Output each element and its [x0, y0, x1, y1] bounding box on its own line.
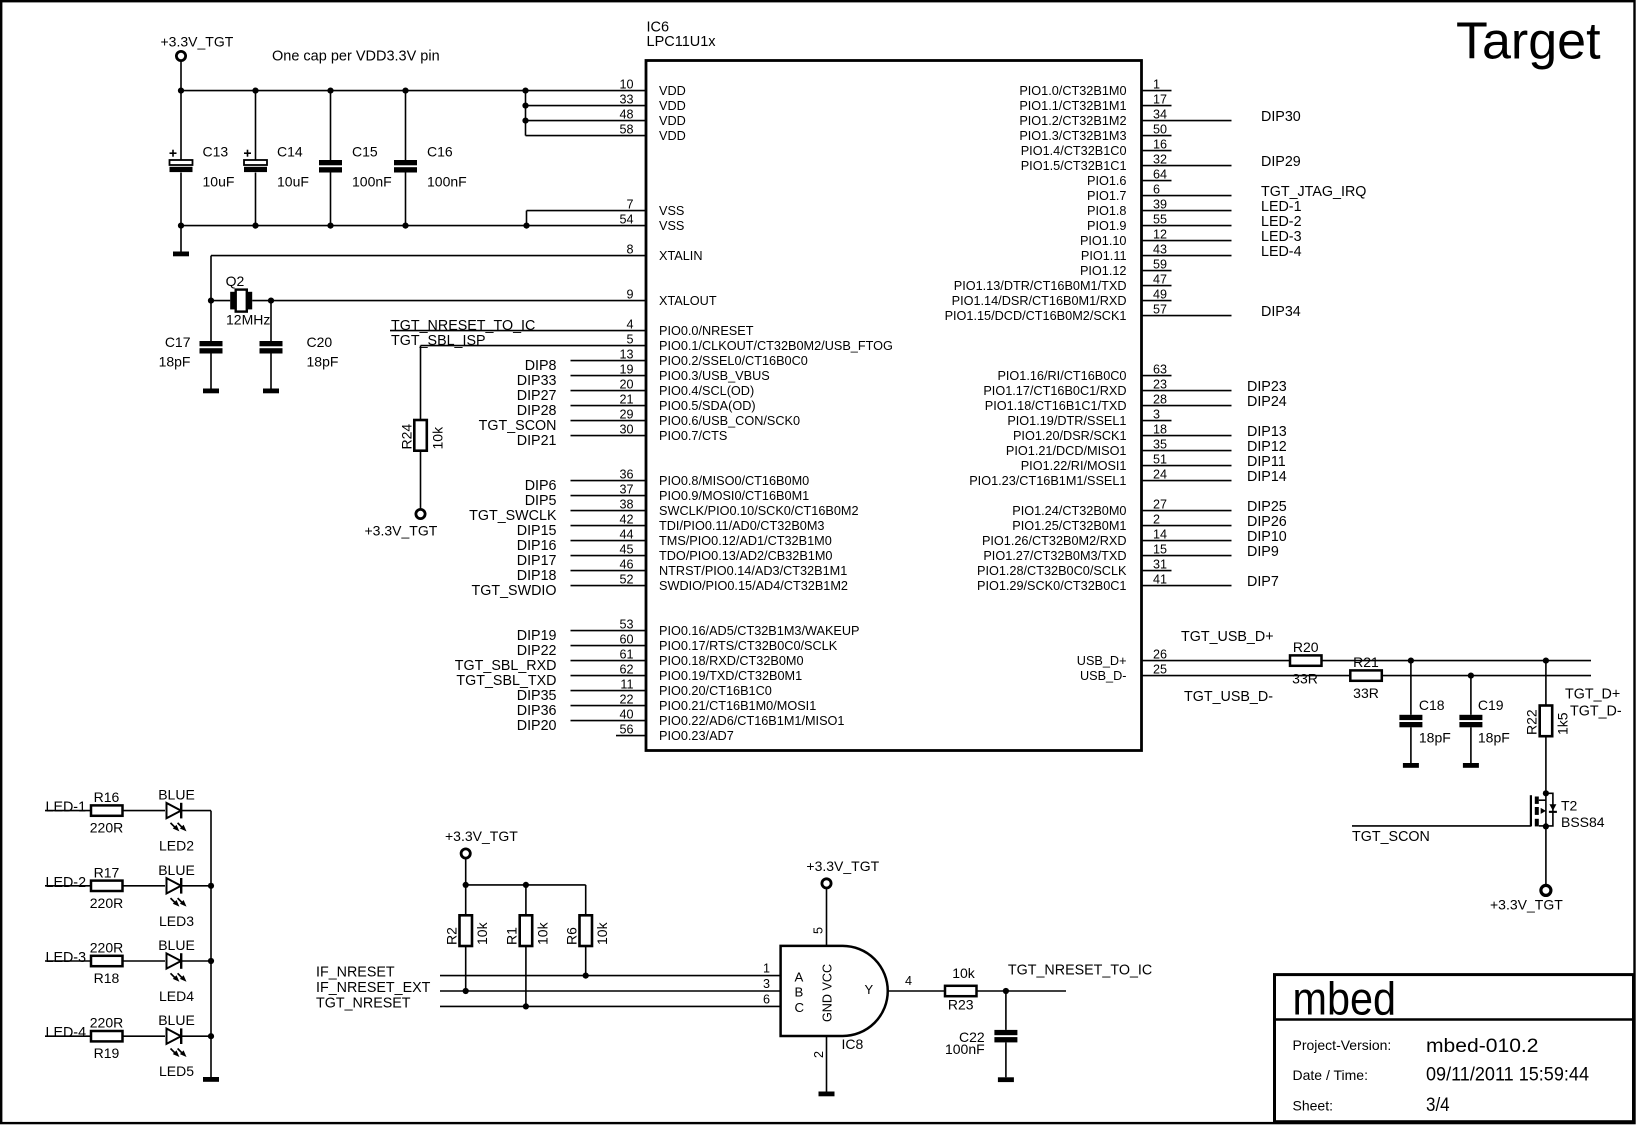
- svg-text:PIO1.25/CT32B0M1: PIO1.25/CT32B0M1: [1012, 519, 1126, 533]
- svg-text:R21: R21: [1353, 654, 1379, 670]
- svg-text:18pF: 18pF: [1419, 730, 1451, 746]
- svg-text:6: 6: [1153, 183, 1160, 197]
- svg-text:PIO1.1/CT32B1M1: PIO1.1/CT32B1M1: [1019, 99, 1126, 113]
- svg-text:55: 55: [1153, 213, 1167, 227]
- svg-text:PIO1.0/CT32B1M0: PIO1.0/CT32B1M0: [1019, 84, 1126, 98]
- svg-text:PIO1.26/CT32B0M2/RXD: PIO1.26/CT32B0M2/RXD: [982, 534, 1127, 548]
- svg-text:DIP22: DIP22: [517, 643, 557, 659]
- svg-text:mbed: mbed: [1293, 972, 1397, 1024]
- svg-text:BLUE: BLUE: [158, 937, 195, 953]
- svg-text:23: 23: [1153, 378, 1167, 392]
- svg-text:+3.3V_TGT: +3.3V_TGT: [806, 858, 879, 874]
- svg-text:PIO0.21/CT16B1M0/MOSI1: PIO0.21/CT16B1M0/MOSI1: [659, 699, 816, 713]
- svg-text:R20: R20: [1293, 639, 1319, 655]
- svg-text:30: 30: [619, 423, 633, 437]
- svg-text:B: B: [795, 985, 804, 1000]
- svg-text:BLUE: BLUE: [158, 862, 195, 878]
- svg-text:50: 50: [1153, 123, 1167, 137]
- svg-text:PIO0.17/RTS/CT32B0C0/SCLK: PIO0.17/RTS/CT32B0C0/SCLK: [659, 639, 838, 653]
- svg-text:IF_NRESET_EXT: IF_NRESET_EXT: [316, 980, 431, 996]
- svg-text:VDD: VDD: [659, 114, 686, 128]
- svg-text:13: 13: [619, 348, 633, 362]
- svg-text:DIP15: DIP15: [517, 523, 557, 539]
- svg-text:1k5: 1k5: [1555, 712, 1571, 735]
- svg-text:PIO1.3/CT32B1M3: PIO1.3/CT32B1M3: [1019, 129, 1126, 143]
- svg-text:PIO1.29/SCK0/CT32B0C1: PIO1.29/SCK0/CT32B0C1: [977, 579, 1127, 593]
- svg-text:62: 62: [619, 663, 633, 677]
- svg-text:4: 4: [626, 318, 633, 332]
- svg-text:51: 51: [1153, 453, 1167, 467]
- svg-text:43: 43: [1153, 243, 1167, 257]
- svg-text:PIO0.6/USB_CON/SCK0: PIO0.6/USB_CON/SCK0: [659, 414, 800, 428]
- svg-text:DIP21: DIP21: [517, 433, 557, 449]
- svg-text:LED-4: LED-4: [46, 1025, 87, 1041]
- svg-text:LED4: LED4: [159, 988, 194, 1004]
- svg-text:TGT_D+: TGT_D+: [1565, 687, 1620, 703]
- svg-text:PIO1.18/CT16B1C1/TXD: PIO1.18/CT16B1C1/TXD: [985, 399, 1127, 413]
- svg-text:DIP25: DIP25: [1247, 499, 1287, 515]
- svg-text:LED-3: LED-3: [46, 950, 87, 966]
- svg-text:DIP36: DIP36: [517, 703, 557, 719]
- svg-text:14: 14: [1153, 528, 1167, 542]
- svg-text:24: 24: [1153, 468, 1167, 482]
- svg-text:7: 7: [626, 198, 633, 212]
- svg-text:LED5: LED5: [159, 1063, 194, 1079]
- svg-text:DIP16: DIP16: [517, 538, 557, 554]
- svg-text:LED-4: LED-4: [1261, 244, 1302, 260]
- svg-text:PIO1.22/RI/MOSI1: PIO1.22/RI/MOSI1: [1021, 459, 1127, 473]
- svg-text:59: 59: [1153, 258, 1167, 272]
- svg-text:17: 17: [1153, 93, 1167, 107]
- svg-text:LED-2: LED-2: [1261, 214, 1302, 230]
- svg-text:47: 47: [1153, 273, 1167, 287]
- svg-text:220R: 220R: [90, 895, 123, 911]
- svg-text:PIO0.23/AD7: PIO0.23/AD7: [659, 729, 734, 743]
- svg-text:PIO1.2/CT32B1M2: PIO1.2/CT32B1M2: [1019, 114, 1126, 128]
- svg-text:10uF: 10uF: [203, 174, 235, 190]
- svg-text:2: 2: [1153, 513, 1160, 527]
- svg-text:12MHz: 12MHz: [226, 312, 270, 328]
- svg-text:36: 36: [619, 468, 633, 482]
- svg-text:18pF: 18pF: [159, 354, 191, 370]
- svg-text:TGT_USB_D-: TGT_USB_D-: [1184, 689, 1273, 705]
- svg-text:DIP10: DIP10: [1247, 529, 1287, 545]
- svg-text:NTRST/PIO0.14/AD3/CT32B1M1: NTRST/PIO0.14/AD3/CT32B1M1: [659, 564, 847, 578]
- svg-text:20: 20: [619, 378, 633, 392]
- svg-text:DIP33: DIP33: [517, 373, 557, 389]
- svg-text:TGT_SWCLK: TGT_SWCLK: [469, 508, 557, 524]
- svg-text:25: 25: [1153, 663, 1167, 677]
- svg-text:PIO1.12: PIO1.12: [1080, 264, 1127, 278]
- svg-text:LED-1: LED-1: [1261, 199, 1302, 215]
- svg-text:33R: 33R: [1353, 685, 1379, 701]
- svg-text:DIP20: DIP20: [517, 718, 557, 734]
- svg-text:VDD: VDD: [659, 84, 686, 98]
- svg-text:PIO1.10: PIO1.10: [1080, 234, 1127, 248]
- svg-text:10k: 10k: [430, 426, 446, 450]
- svg-text:PIO1.28/CT32B0C0/SCLK: PIO1.28/CT32B0C0/SCLK: [977, 564, 1127, 578]
- svg-text:PIO1.13/DTR/CT16B0M1/TXD: PIO1.13/DTR/CT16B0M1/TXD: [954, 279, 1127, 293]
- svg-text:38: 38: [619, 498, 633, 512]
- svg-text:PIO1.14/DSR/CT16B0M1/RXD: PIO1.14/DSR/CT16B0M1/RXD: [952, 294, 1127, 308]
- svg-text:PIO0.3/USB_VBUS: PIO0.3/USB_VBUS: [659, 369, 770, 383]
- svg-text:BSS84: BSS84: [1561, 814, 1605, 830]
- svg-text:PIO1.8: PIO1.8: [1087, 204, 1127, 218]
- svg-text:18pF: 18pF: [1478, 730, 1510, 746]
- svg-text:100nF: 100nF: [945, 1041, 985, 1057]
- svg-text:PIO1.19/DTR/SSEL1: PIO1.19/DTR/SSEL1: [1007, 414, 1126, 428]
- svg-text:TGT_SBL_TXD: TGT_SBL_TXD: [456, 673, 556, 689]
- svg-text:220R: 220R: [90, 1015, 123, 1031]
- svg-text:C: C: [795, 1000, 805, 1015]
- svg-text:TDO/PIO0.13/AD2/CB32B1M0: TDO/PIO0.13/AD2/CB32B1M0: [659, 549, 832, 563]
- svg-text:41: 41: [1153, 573, 1167, 587]
- svg-text:TGT_NRESET_TO_IC: TGT_NRESET_TO_IC: [391, 318, 535, 334]
- svg-text:LED-2: LED-2: [46, 875, 87, 891]
- svg-text:DIP5: DIP5: [525, 493, 557, 509]
- svg-text:VSS: VSS: [659, 204, 684, 218]
- svg-text:mbed-010.2: mbed-010.2: [1426, 1036, 1539, 1057]
- svg-text:LED-1: LED-1: [46, 800, 87, 816]
- svg-text:PIO1.20/DSR/SCK1: PIO1.20/DSR/SCK1: [1013, 429, 1127, 443]
- svg-text:PIO1.6: PIO1.6: [1087, 174, 1127, 188]
- svg-text:63: 63: [1153, 363, 1167, 377]
- svg-text:18pF: 18pF: [307, 354, 339, 370]
- svg-text:DIP30: DIP30: [1261, 109, 1301, 125]
- svg-text:PIO0.0/NRESET: PIO0.0/NRESET: [659, 324, 754, 338]
- svg-text:R17: R17: [94, 864, 120, 880]
- svg-text:56: 56: [619, 723, 633, 737]
- svg-text:DIP28: DIP28: [517, 403, 557, 419]
- svg-text:A: A: [795, 969, 804, 984]
- svg-text:SWCLK/PIO0.10/SCK0/CT16B0M2: SWCLK/PIO0.10/SCK0/CT16B0M2: [659, 504, 859, 518]
- svg-text:VDD: VDD: [659, 129, 686, 143]
- svg-text:10uF: 10uF: [277, 174, 309, 190]
- svg-text:PIO0.5/SDA(OD): PIO0.5/SDA(OD): [659, 399, 756, 413]
- svg-text:35: 35: [1153, 438, 1167, 452]
- svg-text:IC8: IC8: [842, 1036, 864, 1052]
- svg-text:DIP9: DIP9: [1247, 544, 1279, 560]
- svg-text:C18: C18: [1419, 697, 1445, 713]
- svg-text:GND VCC: GND VCC: [820, 964, 834, 1022]
- svg-text:10k: 10k: [594, 921, 610, 945]
- svg-text:100nF: 100nF: [427, 174, 467, 190]
- svg-text:44: 44: [619, 528, 633, 542]
- svg-text:VSS: VSS: [659, 219, 684, 233]
- svg-text:33: 33: [619, 93, 633, 107]
- svg-text:XTALIN: XTALIN: [659, 249, 702, 263]
- svg-text:R19: R19: [94, 1045, 120, 1061]
- svg-text:PIO0.19/TXD/CT32B0M1: PIO0.19/TXD/CT32B0M1: [659, 669, 802, 683]
- svg-text:TGT_NRESET: TGT_NRESET: [316, 995, 411, 1011]
- svg-text:R6: R6: [564, 927, 580, 945]
- svg-text:1: 1: [763, 962, 770, 976]
- svg-text:29: 29: [619, 408, 633, 422]
- svg-text:PIO1.4/CT32B1C0: PIO1.4/CT32B1C0: [1021, 144, 1127, 158]
- svg-text:TGT_SBL_RXD: TGT_SBL_RXD: [455, 658, 557, 674]
- svg-text:BLUE: BLUE: [158, 787, 195, 803]
- svg-text:3/4: 3/4: [1426, 1095, 1450, 1116]
- svg-text:8: 8: [626, 243, 633, 257]
- svg-text:34: 34: [1153, 108, 1167, 122]
- svg-text:10: 10: [619, 78, 633, 92]
- svg-text:TDI/PIO0.11/AD0/CT32B0M3: TDI/PIO0.11/AD0/CT32B0M3: [659, 519, 824, 533]
- svg-text:SWDIO/PIO0.15/AD4/CT32B1M2: SWDIO/PIO0.15/AD4/CT32B1M2: [659, 579, 848, 593]
- svg-text:49: 49: [1153, 288, 1167, 302]
- svg-text:DIP26: DIP26: [1247, 514, 1287, 530]
- svg-text:58: 58: [619, 123, 633, 137]
- svg-text:54: 54: [619, 213, 633, 227]
- svg-text:DIP11: DIP11: [1247, 454, 1286, 470]
- svg-text:+3.3V_TGT: +3.3V_TGT: [445, 828, 518, 844]
- svg-text:PIO1.24/CT32B0M0: PIO1.24/CT32B0M0: [1012, 504, 1126, 518]
- svg-text:Sheet:: Sheet:: [1293, 1098, 1333, 1114]
- svg-text:DIP17: DIP17: [517, 553, 557, 569]
- svg-text:C14: C14: [277, 144, 303, 160]
- svg-text:27: 27: [1153, 498, 1167, 512]
- svg-text:R1: R1: [504, 927, 520, 945]
- svg-text:PIO1.16/RI/CT16B0C0: PIO1.16/RI/CT16B0C0: [997, 369, 1126, 383]
- svg-text:64: 64: [1153, 168, 1167, 182]
- svg-text:DIP13: DIP13: [1247, 424, 1287, 440]
- svg-text:R22: R22: [1524, 709, 1540, 735]
- svg-text:220R: 220R: [90, 820, 123, 836]
- svg-text:+3.3V_TGT: +3.3V_TGT: [365, 523, 438, 539]
- svg-text:USB_D-: USB_D-: [1080, 669, 1127, 683]
- svg-text:DIP27: DIP27: [517, 388, 557, 404]
- svg-text:15: 15: [1153, 543, 1167, 557]
- svg-text:DIP6: DIP6: [525, 478, 557, 494]
- svg-text:TGT_NRESET_TO_IC: TGT_NRESET_TO_IC: [1008, 962, 1152, 978]
- svg-text:28: 28: [1153, 393, 1167, 407]
- svg-text:DIP35: DIP35: [517, 688, 557, 704]
- svg-text:DIP8: DIP8: [525, 358, 557, 374]
- svg-text:PIO1.23/CT16B1M1/SSEL1: PIO1.23/CT16B1M1/SSEL1: [969, 474, 1126, 488]
- svg-text:TGT_SWDIO: TGT_SWDIO: [472, 583, 557, 599]
- svg-text:46: 46: [619, 558, 633, 572]
- svg-text:PIO0.1/CLKOUT/CT32B0M2/USB_FTO: PIO0.1/CLKOUT/CT32B0M2/USB_FTOG: [659, 339, 893, 353]
- svg-text:TGT_SCON: TGT_SCON: [479, 418, 557, 434]
- svg-text:31: 31: [1153, 558, 1167, 572]
- svg-text:40: 40: [619, 708, 633, 722]
- svg-text:TGT_D-: TGT_D-: [1570, 704, 1622, 720]
- svg-text:TGT_SBL_ISP: TGT_SBL_ISP: [391, 333, 486, 349]
- svg-text:PIO0.22/AD6/CT16B1M1/MISO1: PIO0.22/AD6/CT16B1M1/MISO1: [659, 714, 844, 728]
- svg-text:DIP23: DIP23: [1247, 379, 1287, 395]
- svg-text:10k: 10k: [534, 921, 550, 945]
- svg-text:PIO1.7: PIO1.7: [1087, 189, 1127, 203]
- svg-text:4: 4: [905, 974, 912, 988]
- svg-text:60: 60: [619, 633, 633, 647]
- svg-text:45: 45: [619, 543, 633, 557]
- svg-text:2: 2: [812, 1051, 826, 1058]
- svg-text:39: 39: [1153, 198, 1167, 212]
- svg-text:DIP24: DIP24: [1247, 394, 1287, 410]
- svg-text:PIO0.8/MISO0/CT16B0M0: PIO0.8/MISO0/CT16B0M0: [659, 474, 809, 488]
- svg-text:37: 37: [619, 483, 633, 497]
- svg-text:PIO0.2/SSEL0/CT16B0C0: PIO0.2/SSEL0/CT16B0C0: [659, 354, 808, 368]
- svg-text:LED-3: LED-3: [1261, 229, 1302, 245]
- svg-text:One cap per VDD3.3V pin: One cap per VDD3.3V pin: [272, 49, 440, 65]
- svg-text:C20: C20: [307, 334, 333, 350]
- svg-text:TMS/PIO0.12/AD1/CT32B1M0: TMS/PIO0.12/AD1/CT32B1M0: [659, 534, 832, 548]
- svg-text:Q2: Q2: [226, 273, 245, 289]
- svg-text:R16: R16: [94, 789, 120, 805]
- svg-text:LED2: LED2: [159, 838, 194, 854]
- svg-text:DIP7: DIP7: [1247, 574, 1279, 590]
- svg-text:+3.3V_TGT: +3.3V_TGT: [161, 34, 234, 50]
- svg-text:TGT_USB_D+: TGT_USB_D+: [1181, 629, 1274, 645]
- svg-text:PIO0.9/MOSI0/CT16B0M1: PIO0.9/MOSI0/CT16B0M1: [659, 489, 809, 503]
- svg-text:Date / Time:: Date / Time:: [1293, 1067, 1368, 1083]
- svg-text:22: 22: [619, 693, 633, 707]
- svg-text:T2: T2: [1561, 798, 1578, 814]
- svg-text:DIP14: DIP14: [1247, 469, 1287, 485]
- svg-text:26: 26: [1153, 648, 1167, 662]
- svg-text:DIP29: DIP29: [1261, 154, 1301, 170]
- svg-text:DIP12: DIP12: [1247, 439, 1287, 455]
- svg-text:Y: Y: [865, 982, 874, 997]
- svg-text:53: 53: [619, 618, 633, 632]
- svg-text:PIO0.20/CT16B1C0: PIO0.20/CT16B1C0: [659, 684, 772, 698]
- svg-text:3: 3: [1153, 408, 1160, 422]
- svg-text:18: 18: [1153, 423, 1167, 437]
- svg-text:C19: C19: [1478, 697, 1504, 713]
- svg-text:BLUE: BLUE: [158, 1012, 195, 1028]
- svg-text:PIO1.9: PIO1.9: [1087, 219, 1127, 233]
- svg-text:57: 57: [1153, 303, 1167, 317]
- svg-text:TGT_JTAG_IRQ: TGT_JTAG_IRQ: [1261, 184, 1366, 200]
- svg-text:IF_NRESET: IF_NRESET: [316, 965, 395, 981]
- svg-text:C16: C16: [427, 144, 453, 160]
- svg-text:PIO0.18/RXD/CT32B0M0: PIO0.18/RXD/CT32B0M0: [659, 654, 804, 668]
- svg-text:33R: 33R: [1292, 671, 1318, 687]
- svg-text:11: 11: [620, 678, 633, 692]
- svg-text:USB_D+: USB_D+: [1077, 654, 1127, 668]
- svg-text:1: 1: [1153, 78, 1160, 92]
- svg-text:100nF: 100nF: [352, 174, 392, 190]
- svg-text:PIO0.4/SCL(OD): PIO0.4/SCL(OD): [659, 384, 754, 398]
- svg-text:C15: C15: [352, 144, 378, 160]
- svg-text:52: 52: [619, 573, 633, 587]
- svg-text:48: 48: [619, 108, 633, 122]
- svg-text:32: 32: [1153, 153, 1167, 167]
- svg-text:DIP34: DIP34: [1261, 304, 1301, 320]
- svg-text:PIO1.21/DCD/MISO1: PIO1.21/DCD/MISO1: [1006, 444, 1127, 458]
- svg-text:PIO1.17/CT16B0C1/RXD: PIO1.17/CT16B0C1/RXD: [983, 384, 1126, 398]
- svg-text:61: 61: [619, 648, 633, 662]
- svg-text:21: 21: [619, 393, 633, 407]
- svg-text:42: 42: [619, 513, 633, 527]
- svg-text:DIP18: DIP18: [517, 568, 557, 584]
- svg-text:LPC11U1x: LPC11U1x: [647, 34, 717, 50]
- svg-text:19: 19: [619, 363, 633, 377]
- svg-text:09/11/2011 15:59:44: 09/11/2011 15:59:44: [1426, 1065, 1589, 1086]
- svg-text:PIO1.27/CT32B0M3/TXD: PIO1.27/CT32B0M3/TXD: [983, 549, 1126, 563]
- svg-text:R23: R23: [948, 997, 974, 1013]
- svg-text:3: 3: [763, 977, 770, 991]
- svg-text:R2: R2: [444, 927, 460, 945]
- svg-text:PIO1.5/CT32B1C1: PIO1.5/CT32B1C1: [1021, 159, 1127, 173]
- svg-text:R18: R18: [94, 970, 120, 986]
- svg-text:220R: 220R: [90, 940, 123, 956]
- svg-text:PIO0.7/CTS: PIO0.7/CTS: [659, 429, 727, 443]
- svg-text:C13: C13: [203, 144, 229, 160]
- svg-text:PIO1.11: PIO1.11: [1081, 249, 1127, 263]
- svg-text:16: 16: [1153, 138, 1167, 152]
- svg-text:6: 6: [763, 992, 770, 1006]
- svg-text:TGT_SCON: TGT_SCON: [1352, 829, 1430, 845]
- svg-text:PIO0.16/AD5/CT32B1M3/WAKEUP: PIO0.16/AD5/CT32B1M3/WAKEUP: [659, 624, 860, 638]
- svg-text:9: 9: [626, 288, 633, 302]
- svg-text:Project-Version:: Project-Version:: [1293, 1037, 1392, 1053]
- svg-text:R24: R24: [399, 424, 415, 450]
- svg-text:+3.3V_TGT: +3.3V_TGT: [1490, 897, 1563, 913]
- svg-text:12: 12: [1153, 228, 1167, 242]
- svg-text:5: 5: [812, 927, 826, 934]
- svg-text:DIP19: DIP19: [517, 628, 557, 644]
- svg-text:10k: 10k: [474, 921, 490, 945]
- svg-text:VDD: VDD: [659, 99, 686, 113]
- svg-text:Target: Target: [1456, 13, 1601, 71]
- svg-text:C17: C17: [165, 334, 191, 350]
- svg-text:10k: 10k: [952, 965, 976, 981]
- svg-text:XTALOUT: XTALOUT: [659, 294, 717, 308]
- svg-text:LED3: LED3: [159, 913, 194, 929]
- svg-text:PIO1.15/DCD/CT16B0M2/SCK1: PIO1.15/DCD/CT16B0M2/SCK1: [945, 309, 1127, 323]
- svg-text:5: 5: [626, 333, 633, 347]
